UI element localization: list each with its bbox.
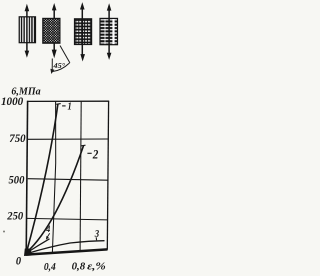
svg-text:45°: 45°	[52, 61, 65, 70]
svg-text:2: 2	[92, 147, 99, 162]
svg-text:3: 3	[94, 229, 99, 240]
svg-text:250: 250	[6, 209, 23, 223]
svg-text:4: 4	[45, 225, 50, 235]
svg-text:0: 0	[16, 254, 21, 268]
svg-text:1: 1	[68, 101, 72, 113]
svg-text:0,4: 0,4	[44, 261, 56, 273]
svg-text:1000: 1000	[1, 94, 23, 108]
svg-text:0,8: 0,8	[72, 261, 86, 273]
svg-text:500: 500	[9, 172, 25, 186]
svg-text:ε,%: ε,%	[87, 261, 106, 273]
svg-text:750: 750	[9, 131, 25, 145]
